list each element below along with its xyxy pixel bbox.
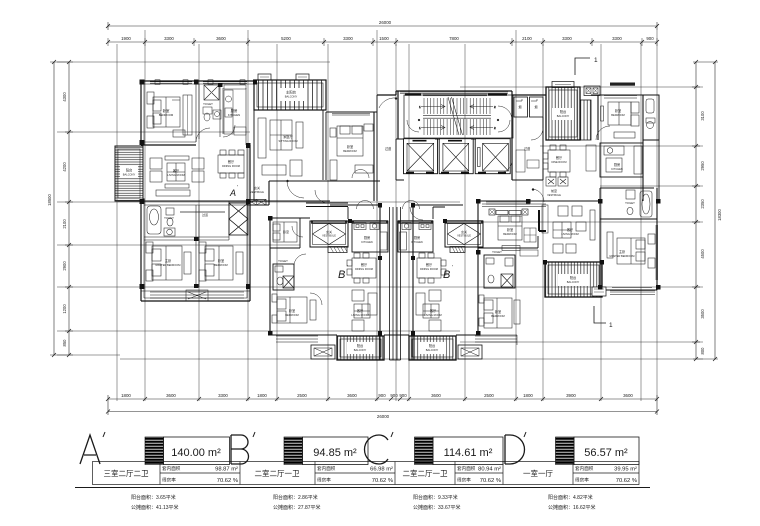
- svg-text:TOILET: TOILET: [625, 201, 635, 205]
- svg-text:3100: 3100: [700, 111, 705, 121]
- svg-text:3300: 3300: [164, 36, 174, 41]
- break diagonals: [448, 97, 463, 135]
- flue boxes: [514, 97, 543, 117]
- letter B': [231, 432, 255, 464]
- svg-text:二室二厅一卫: 二室二厅一卫: [403, 468, 448, 478]
- bedroom D: [591, 95, 643, 140]
- svg-text:LIVING ROOM: LIVING ROOM: [167, 173, 184, 177]
- svg-text:3600: 3600: [216, 36, 226, 41]
- hatch strip under vestibule: [328, 247, 347, 253]
- svg-text:MASTER BEDROOM: MASTER BEDROOM: [610, 254, 635, 258]
- flight arrows: [421, 105, 445, 109]
- unit C outer: [478, 188, 657, 297]
- living room A walls: [143, 145, 250, 201]
- toilet B-left: [273, 264, 294, 290]
- columns B units: [268, 199, 661, 336]
- party wall center: [390, 207, 401, 360]
- svg-text:KITCHEN: KITCHEN: [411, 240, 423, 244]
- svg-text:套内面积: 套内面积: [162, 465, 181, 472]
- door arcs unit A: [196, 125, 235, 142]
- unit A entry door arcs: [287, 170, 370, 199]
- svg-text:阳台: 阳台: [357, 343, 363, 348]
- svg-text:': ': [237, 185, 238, 191]
- svg-text:1800: 1800: [121, 393, 131, 398]
- svg-text:LIVING ROOM: LIVING ROOM: [351, 313, 368, 317]
- letter A': [80, 432, 105, 464]
- svg-text:3300: 3300: [343, 36, 353, 41]
- svg-text:得房率: 得房率: [317, 477, 331, 484]
- legend block D: [556, 437, 575, 465]
- letter C': [365, 432, 394, 464]
- svg-text:4300: 4300: [62, 92, 67, 102]
- section mark 1 (top): [575, 58, 590, 75]
- top tick slashes: [106, 24, 659, 28]
- top dimension labels: [121, 20, 654, 41]
- svg-text:18300: 18300: [717, 209, 722, 221]
- extra windows unit C right wall: [486, 202, 658, 295]
- toilet A fixtures: [203, 107, 221, 121]
- svg-text:主卧: 主卧: [165, 258, 172, 263]
- svg-text:70.62 %: 70.62 %: [480, 478, 501, 484]
- svg-text:VESTIBULE: VESTIBULE: [457, 235, 471, 238]
- svg-text:1500: 1500: [379, 36, 389, 41]
- bedroom C TL window sill marks: [489, 209, 528, 215]
- living room A sofa set: [150, 156, 204, 196]
- kitchen A: [224, 85, 246, 135]
- svg-text:900: 900: [399, 393, 407, 398]
- svg-text:公摊面积：41.13平米: 公摊面积：41.13平米: [131, 504, 179, 511]
- elevator 1: [404, 139, 438, 174]
- svg-text:70.62 %: 70.62 %: [217, 478, 238, 484]
- right dimension lines: [692, 62, 718, 359]
- svg-text:66.98 m²: 66.98 m²: [370, 467, 393, 473]
- svg-text:阳台面积：3.65平米: 阳台面积：3.65平米: [131, 494, 176, 501]
- svg-text:BEDROOM: BEDROOM: [491, 314, 504, 318]
- svg-text:得房率: 得房率: [162, 477, 176, 484]
- columns unit A: [140, 80, 258, 290]
- svg-text:B: B: [338, 269, 345, 281]
- svg-text:主卧: 主卧: [619, 249, 626, 254]
- svg-text:TOILET: TOILET: [492, 250, 502, 254]
- unit A top windows: [150, 80, 247, 85]
- svg-text:BALCONY: BALCONY: [123, 173, 136, 177]
- vestibule B-right (diamond): [445, 221, 483, 247]
- svg-text:26000: 26000: [379, 20, 392, 25]
- svg-text:850: 850: [62, 339, 67, 347]
- svg-text:1800: 1800: [523, 393, 533, 398]
- kitchen D: [600, 143, 643, 177]
- corridor walls right: [512, 95, 546, 180]
- svg-text:公摊面积：16.62平米: 公摊面积：16.62平米: [548, 504, 596, 511]
- svg-text:800: 800: [700, 347, 705, 355]
- svg-text:厨房: 厨房: [414, 235, 420, 240]
- stair top wall dark segments: [405, 94, 507, 96]
- stair side door arcs: [407, 119, 510, 132]
- legend block B: [284, 437, 303, 465]
- svg-text:公摊面积：33.67平米: 公摊面积：33.67平米: [413, 504, 461, 511]
- letter D': [505, 432, 526, 464]
- svg-text:3500: 3500: [700, 309, 705, 319]
- fine print: [131, 494, 596, 511]
- bedroom A1 bed: [147, 92, 185, 137]
- unit A bottom windows: [141, 290, 250, 301]
- toilet B-right: [484, 255, 515, 288]
- svg-text:VESTIBULE: VESTIBULE: [322, 235, 336, 238]
- bedroom x326-377: [326, 95, 377, 201]
- top balcony A (vertical hatch): [254, 80, 326, 110]
- svg-text:1800: 1800: [257, 393, 267, 398]
- svg-text:2900: 2900: [62, 261, 67, 271]
- svg-text:客厅: 客厅: [430, 308, 437, 313]
- corridor door arc: [379, 98, 397, 109]
- svg-text:套内面积: 套内面积: [317, 465, 336, 472]
- svg-text:MASTER BEDROOM: MASTER BEDROOM: [156, 263, 181, 267]
- section mark 1 (bottom): [594, 306, 606, 323]
- svg-text:家庭厅: 家庭厅: [283, 134, 293, 139]
- dining B-left: [347, 253, 376, 283]
- svg-text:前室: 前室: [551, 188, 557, 193]
- svg-text:卧室: 卧室: [507, 227, 513, 232]
- svg-text:玄关: 玄关: [326, 229, 332, 234]
- svg-text:114.61 m²: 114.61 m²: [444, 447, 493, 459]
- svg-text:卧室: 卧室: [347, 144, 353, 149]
- svg-text:卧室: 卧室: [283, 229, 289, 234]
- svg-text:客厅: 客厅: [357, 308, 364, 313]
- svg-text:BEDROOM: BEDROOM: [503, 232, 516, 236]
- svg-text:餐厅: 餐厅: [228, 159, 235, 164]
- svg-text:过道: 过道: [385, 146, 392, 151]
- svg-text:900: 900: [646, 36, 654, 41]
- svg-text:TOILET: TOILET: [203, 102, 213, 106]
- B-unit entry double doors: [357, 201, 420, 210]
- vestibule B-left (diamond): [310, 221, 348, 247]
- dining B-right: [417, 253, 446, 283]
- legend block A: [145, 437, 164, 465]
- top overall dimension line 26000: [108, 25, 657, 27]
- top segmented dimension line: [108, 41, 657, 43]
- svg-text:LIVING ROOM: LIVING ROOM: [561, 232, 578, 236]
- svg-text:BALCONY: BALCONY: [567, 280, 580, 284]
- svg-text:98.87 m²: 98.87 m²: [215, 467, 238, 473]
- svg-text:70.62 %: 70.62 %: [372, 478, 393, 484]
- vestibule A shoe cabinet X row: [247, 200, 266, 206]
- svg-text:厨房: 厨房: [614, 162, 620, 167]
- svg-text:3300: 3300: [218, 393, 228, 398]
- svg-text:2100: 2100: [522, 36, 532, 41]
- svg-text:卧室: 卧室: [218, 258, 224, 263]
- svg-text:1900: 1900: [121, 36, 131, 41]
- svg-text:套内面积: 套内面积: [457, 465, 476, 472]
- svg-text:TOILET: TOILET: [278, 259, 288, 263]
- B-left bottom windows: [276, 336, 318, 342]
- svg-text:DINING ROOM: DINING ROOM: [420, 267, 438, 271]
- kitchen B-left: [352, 221, 388, 252]
- svg-text:玄关: 玄关: [254, 185, 260, 190]
- svg-text:BEDROOM: BEDROOM: [159, 113, 174, 117]
- svg-text:BEDROOM: BEDROOM: [611, 113, 624, 117]
- svg-text:56.57 m²: 56.57 m²: [584, 447, 628, 459]
- bottom segmented dimension line: [108, 395, 657, 415]
- master C window bottom: [612, 287, 652, 289]
- toilet room C (x600-657, y188-219): [600, 188, 657, 219]
- svg-text:主阳台: 主阳台: [286, 90, 297, 95]
- svg-text:2950: 2950: [700, 161, 705, 171]
- svg-text:过道: 过道: [202, 212, 208, 217]
- svg-text:餐厅: 餐厅: [426, 262, 433, 267]
- svg-text:4200: 4200: [62, 162, 67, 172]
- svg-text:SITTING ROOM: SITTING ROOM: [278, 139, 297, 143]
- svg-text:2500: 2500: [297, 393, 307, 398]
- svg-text:BALCONY: BALCONY: [426, 348, 439, 352]
- svg-text:DINING ROOM: DINING ROOM: [222, 164, 240, 168]
- svg-text:5200: 5200: [281, 36, 291, 41]
- svg-text:卧室: 卧室: [289, 308, 295, 313]
- svg-text:公摊面积：27.87平米: 公摊面积：27.87平米: [273, 504, 321, 511]
- unit D/C right wall upper: [546, 95, 659, 201]
- svg-text:厨房: 厨房: [364, 235, 370, 240]
- svg-text:DINE ROOM: DINE ROOM: [552, 160, 567, 164]
- svg-text:3900: 3900: [566, 393, 576, 398]
- svg-text:18500: 18500: [47, 194, 52, 206]
- svg-text:DINING ROOM: DINING ROOM: [355, 267, 373, 271]
- balcony B-right: [409, 336, 456, 360]
- svg-text:TOILET: TOILET: [164, 216, 174, 220]
- living B-left: [352, 290, 377, 331]
- svg-text:': ': [347, 265, 348, 271]
- core top windows: [400, 92, 508, 94]
- svg-text:1: 1: [609, 322, 613, 329]
- bedroom D bay window (dark band): [610, 83, 635, 86]
- svg-text:KITCHEN: KITCHEN: [611, 167, 623, 171]
- svg-text:1200: 1200: [62, 304, 67, 314]
- svg-text:玄关: 玄关: [461, 229, 467, 234]
- balcony B-left: [337, 336, 384, 360]
- dark window bands over kitchens/vestibules: [311, 220, 483, 223]
- svg-text:BALCONY: BALCONY: [354, 348, 367, 352]
- fridge marks: [546, 177, 568, 186]
- room x254-326 (family): [250, 110, 330, 201]
- svg-text:KITCHEN: KITCHEN: [361, 240, 373, 244]
- left dimension lines: [50, 62, 73, 355]
- svg-text:阳台面积：4.82平米: 阳台面积：4.82平米: [548, 494, 593, 501]
- B-right outer walls: [413, 205, 478, 360]
- svg-text:卧室: 卧室: [495, 309, 501, 314]
- dining D: [543, 145, 570, 177]
- svg-text:80.94 m²: 80.94 m²: [478, 467, 501, 473]
- B-right bottom windows: [475, 335, 517, 345]
- elevator 3: [475, 139, 510, 174]
- svg-text:900: 900: [390, 393, 398, 398]
- svg-text:LIVING ROOM: LIVING ROOM: [424, 313, 441, 317]
- svg-text:阳台: 阳台: [126, 168, 132, 173]
- wardrobe X lower: [229, 203, 248, 235]
- unit A outer walls: [118, 81, 256, 301]
- corridor line: [180, 211, 225, 213]
- core outline: [377, 91, 546, 180]
- door arc into unit C: [532, 189, 544, 203]
- svg-text:BEDROOM: BEDROOM: [285, 313, 298, 317]
- svg-text:烟: 烟: [518, 104, 521, 109]
- svg-text:2500: 2500: [484, 393, 494, 398]
- svg-text:3600: 3600: [347, 393, 357, 398]
- dining room A table: [218, 150, 244, 178]
- kitchen B-right: [398, 221, 433, 252]
- door arcs B-left: [292, 226, 322, 305]
- svg-text:一室一厅: 一室一厅: [523, 468, 553, 478]
- bedroom B-left BL: [272, 294, 316, 323]
- svg-text:三室二厅二卫: 三室二厅二卫: [104, 468, 149, 478]
- lobby door arcs: [315, 106, 512, 220]
- AC box above balcony D: [552, 82, 574, 88]
- svg-text:': ': [452, 265, 453, 271]
- bedroom B-right BL: [479, 295, 520, 328]
- svg-text:餐厅: 餐厅: [361, 262, 368, 267]
- B-left outer walls: [270, 205, 409, 360]
- svg-text:VESTIBULE: VESTIBULE: [547, 194, 561, 197]
- shower A: [204, 85, 219, 100]
- svg-text:VESTIBULE: VESTIBULE: [250, 191, 264, 194]
- svg-text:阳台: 阳台: [429, 343, 435, 348]
- svg-text:阳台面积：2.86平米: 阳台面积：2.86平米: [273, 494, 318, 501]
- svg-text:3300: 3300: [562, 36, 572, 41]
- svg-text:2100: 2100: [62, 219, 67, 229]
- svg-text:BEDROOM: BEDROOM: [214, 263, 227, 267]
- bathroom A lower: [147, 206, 175, 236]
- svg-text:KITCHEN: KITCHEN: [228, 113, 240, 117]
- legend block C: [415, 437, 434, 465]
- unit C hallway small fixtures: [520, 205, 548, 256]
- left balcony (hatch): [115, 146, 143, 201]
- svg-text:39.95 m²: 39.95 m²: [614, 467, 637, 473]
- AC boxes above balcony A: [258, 74, 309, 80]
- bedroom C TL: [478, 204, 546, 248]
- svg-text:BEDROOM: BEDROOM: [343, 149, 356, 153]
- lobby walls: [306, 139, 476, 219]
- bedroom A1 wardrobe: [183, 95, 192, 135]
- svg-text:餐厅: 餐厅: [556, 155, 563, 160]
- lower bedroom 1 (master): [146, 242, 191, 281]
- unit A inner wall faces: [144, 81, 253, 298]
- svg-text:3600: 3600: [166, 393, 176, 398]
- balcony C (vertical hatch): [545, 262, 606, 297]
- svg-text:900: 900: [378, 393, 386, 398]
- svg-text:1: 1: [594, 57, 598, 64]
- balcony D (vertical hatch): [546, 87, 591, 140]
- svg-text:卧室: 卧室: [615, 108, 621, 113]
- svg-text:BALCONY: BALCONY: [285, 95, 298, 99]
- svg-text:7800: 7800: [449, 36, 459, 41]
- svg-text:140.00 m²: 140.00 m²: [171, 447, 221, 459]
- svg-text:得房率: 得房率: [575, 477, 589, 484]
- svg-text:3300: 3300: [612, 36, 622, 41]
- master bedroom C: [600, 219, 657, 290]
- AC box B-right: [458, 345, 482, 359]
- living B-right: [416, 290, 441, 331]
- svg-text:2350: 2350: [700, 199, 705, 209]
- living room C: [553, 206, 595, 253]
- stair treads: [419, 97, 496, 135]
- svg-text:94.85 m²: 94.85 m²: [313, 447, 357, 459]
- svg-text:阳台: 阳台: [560, 109, 566, 114]
- svg-text:3600: 3600: [623, 393, 633, 398]
- elevator 2: [439, 139, 473, 174]
- svg-text:客厅: 客厅: [173, 168, 180, 173]
- corridor D details: [516, 128, 596, 172]
- unit A south wall & vestibule: [250, 181, 380, 205]
- wardrobe L wall bedroom C: [539, 210, 546, 231]
- stairwell: [404, 95, 513, 138]
- svg-text:二室二厅一卫: 二室二厅一卫: [255, 468, 300, 478]
- svg-text:26000: 26000: [377, 414, 390, 419]
- AC box B-left: [311, 345, 335, 359]
- svg-text:套内面积: 套内面积: [575, 465, 594, 472]
- bedroom B-left TL: [270, 218, 300, 248]
- svg-text:3600: 3600: [431, 393, 441, 398]
- svg-text:客厅: 客厅: [567, 227, 574, 232]
- svg-text:A: A: [229, 188, 236, 198]
- lower bedroom 2: [199, 242, 243, 281]
- svg-text:4500: 4500: [700, 249, 705, 259]
- svg-text:B: B: [443, 269, 450, 281]
- flue box right of balcony D: [584, 86, 600, 96]
- legend strip: [75, 462, 650, 488]
- top right corner bath: [643, 95, 659, 140]
- svg-text:BALCONY: BALCONY: [557, 114, 570, 118]
- svg-text:得房率: 得房率: [457, 477, 471, 484]
- svg-text:70.62 %: 70.62 %: [616, 478, 637, 484]
- svg-text:阳台面积：9.33平米: 阳台面积：9.33平米: [413, 494, 458, 501]
- svg-text:阳台: 阳台: [570, 275, 576, 280]
- svg-text:烟: 烟: [534, 104, 537, 109]
